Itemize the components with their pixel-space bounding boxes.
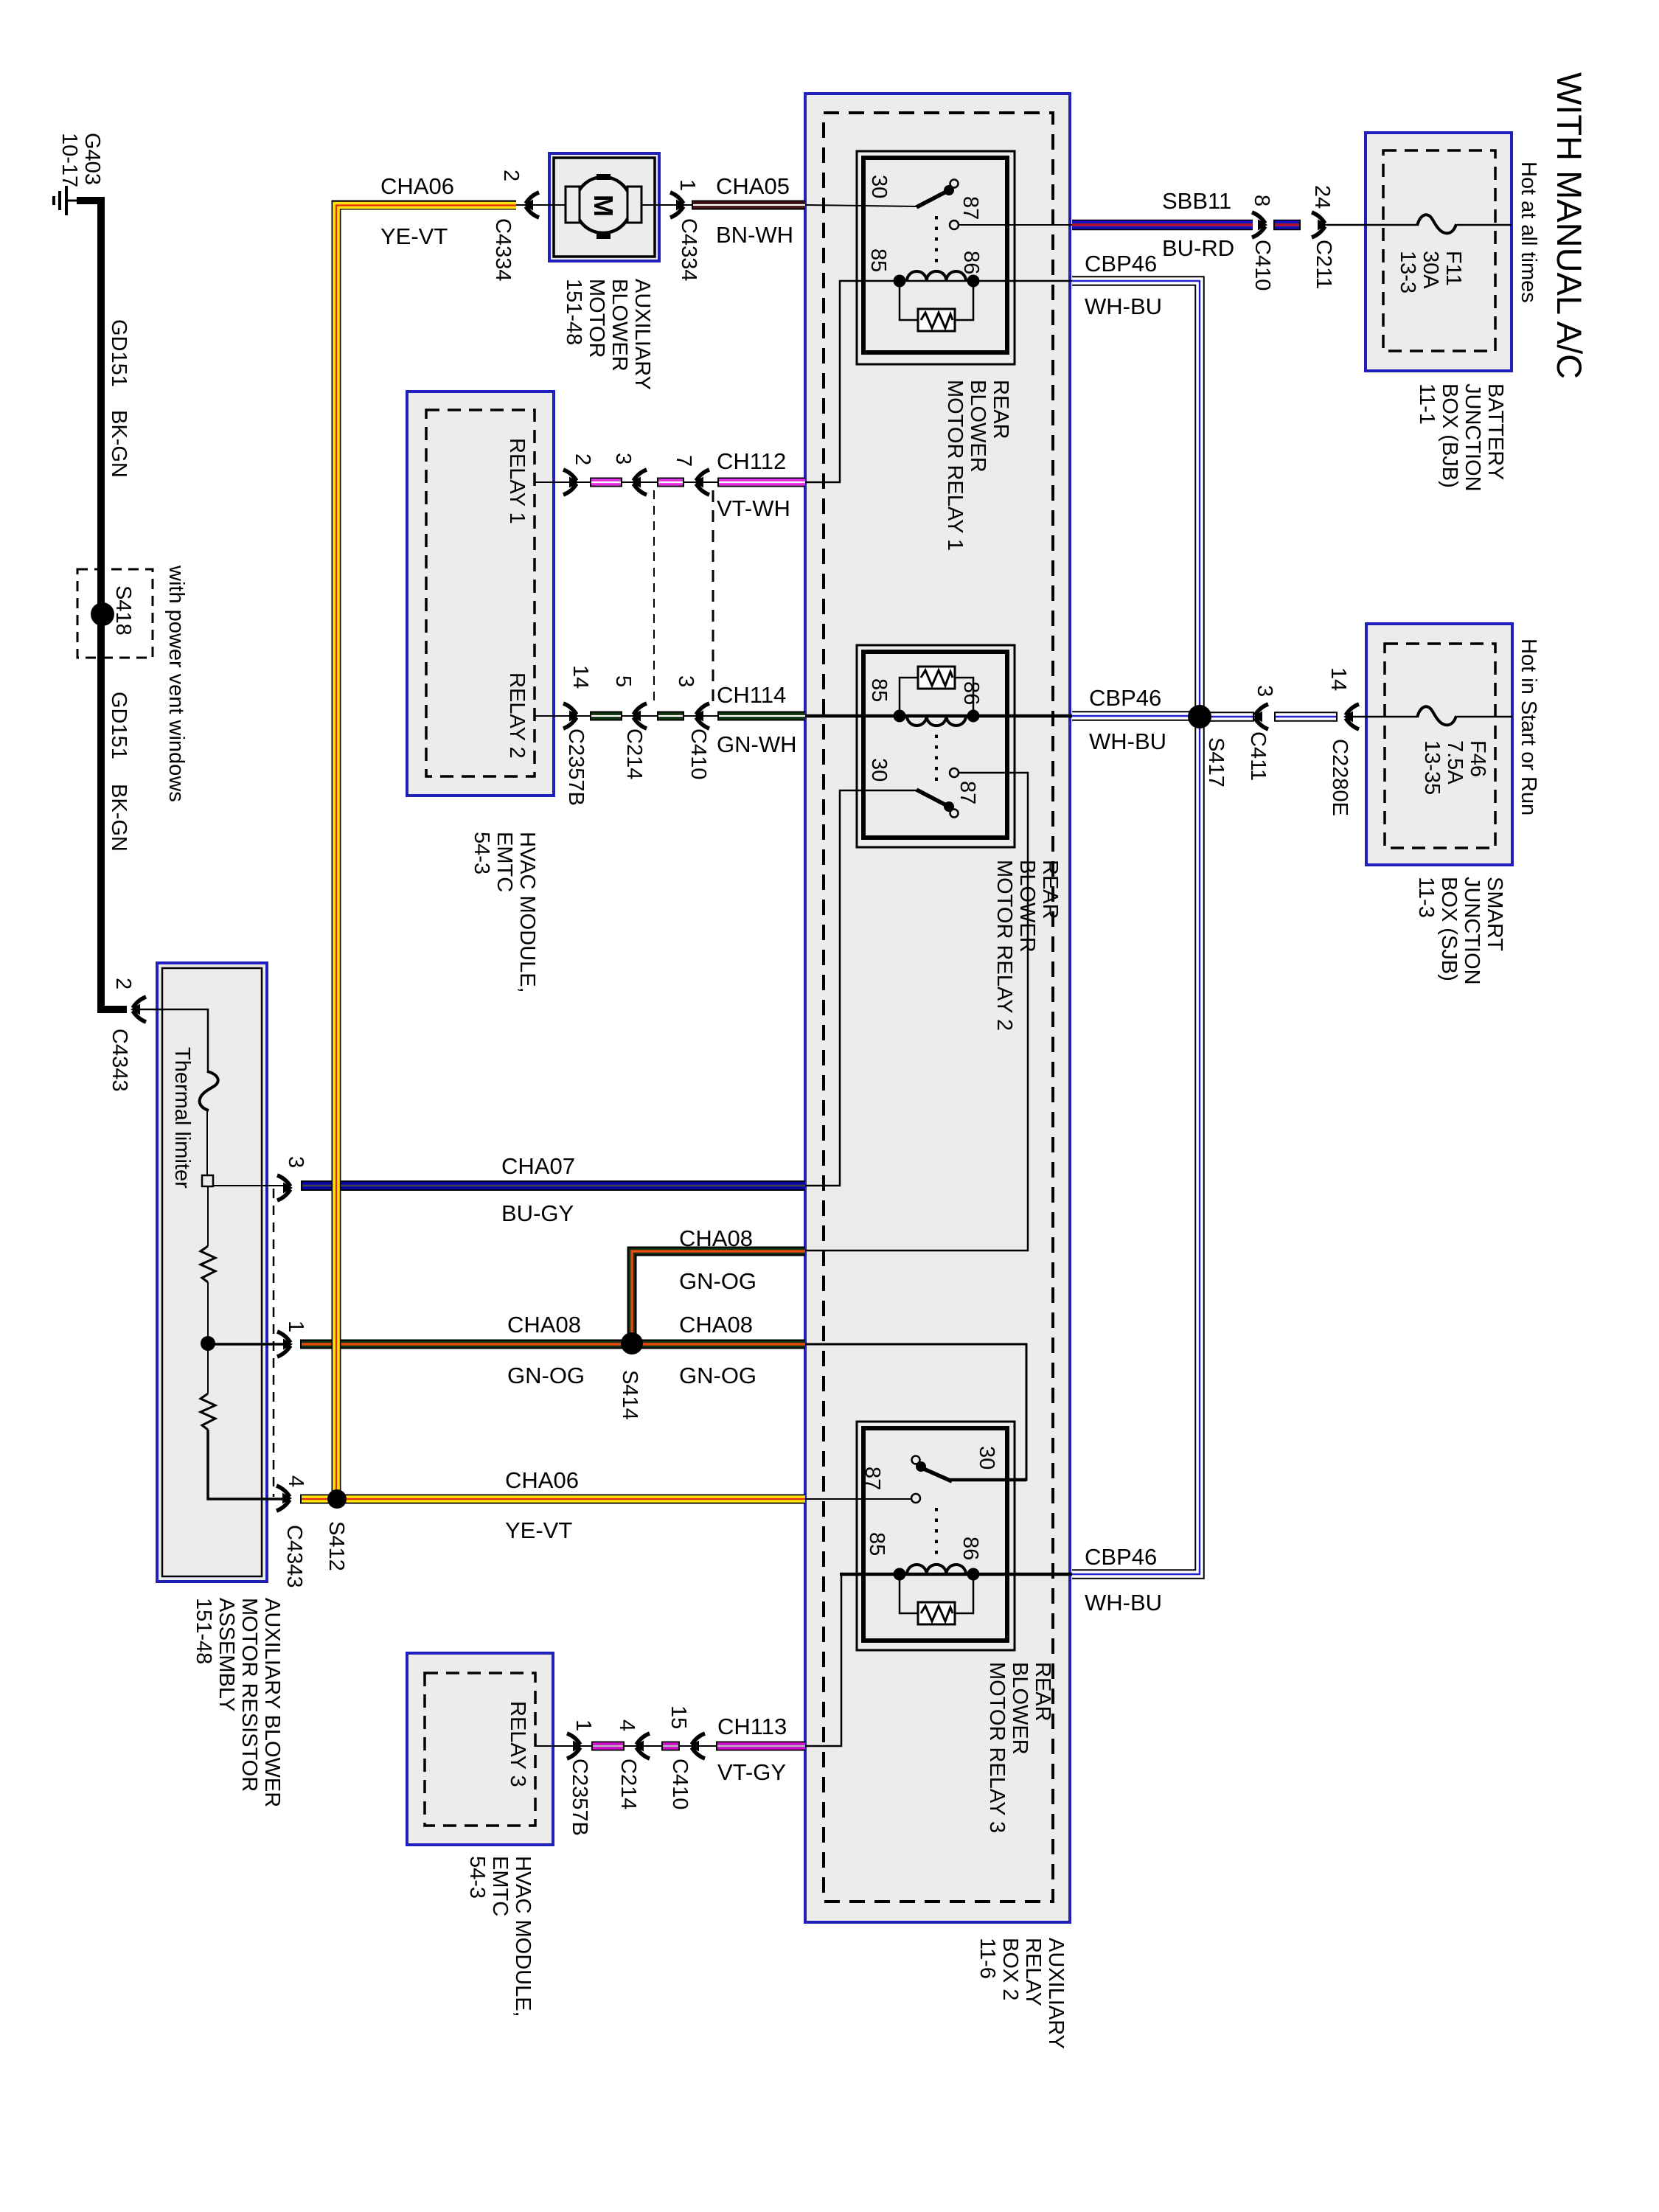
svg-text:CHA06: CHA06 [380, 173, 454, 199]
thermal limiter symbol [200, 1071, 218, 1110]
relay1 switch arm [917, 189, 950, 207]
svg-text:C410: C410 [1251, 240, 1274, 291]
svg-text:3: 3 [1253, 685, 1276, 697]
svg-text:CHA06: CHA06 [505, 1467, 579, 1493]
connector C214 pin5 arrow [631, 703, 647, 728]
relay1 coil [907, 271, 966, 281]
connector C2357B pin1 arrow [567, 1733, 582, 1759]
HVAC module box 1 (RELAY 1 / RELAY 2) [407, 392, 554, 796]
svg-text:30: 30 [867, 758, 891, 782]
relay1 87 contact [950, 220, 959, 229]
wire CHA05 inside box to relay1-30 [805, 205, 917, 206]
relay2 coil row thick wire (inside box) [805, 714, 1072, 718]
resistor 1 zigzag [201, 1246, 215, 1282]
wire into thermal limiter (thin) [140, 1009, 208, 1073]
connector C4343 pin 1 arrow [277, 1332, 293, 1357]
svg-text:CH114: CH114 [717, 682, 786, 708]
splice S412 dot [327, 1489, 347, 1509]
wire motor pin2 thin + connector C4334 pin2 arrow [516, 204, 568, 206]
svg-text:2: 2 [111, 978, 135, 990]
svg-text:VT-GY: VT-GY [717, 1759, 786, 1785]
connector bracket dashed C214 (between CH112/CH114 rows) [653, 490, 655, 706]
svg-text:CHA08: CHA08 [507, 1312, 581, 1338]
SJB inner dashed rect [1385, 644, 1495, 848]
svg-text:CHA08: CHA08 [679, 1312, 753, 1338]
relay: rear blower motor relay 2 [857, 645, 1015, 847]
wire into SJB + fuse F46 [1353, 716, 1417, 718]
wire CHA08 inside box: main row to relay3-30 riser [805, 1344, 1026, 1480]
connector bracket dashed C410 [712, 490, 714, 706]
wire motor pin1 thin + connector C4334 pin1 arrow [640, 204, 693, 206]
auxiliary relay box 2 inner dashed border [824, 113, 1053, 1902]
relay3 30 wire (thick) [950, 1478, 1026, 1482]
relay2 suppression resistor [900, 678, 973, 716]
wire CBP46 WH-BU: relay1-86 to corner to S417 to relay3 row (double line) [1072, 281, 1200, 1574]
ground symbol G403 [54, 186, 77, 215]
svg-text:14: 14 [1326, 667, 1350, 691]
svg-text:C4334: C4334 [677, 218, 700, 281]
HVAC module box 2 (RELAY 3) [407, 1653, 553, 1845]
svg-text:VT-WH: VT-WH [717, 495, 790, 521]
connector C4343 pin 2 arrow (ground side) [131, 997, 146, 1022]
relay: rear blower motor relay 1 [857, 151, 1072, 364]
svg-text:1: 1 [571, 1719, 595, 1731]
wire junction down to resistor 2 [207, 1344, 209, 1394]
svg-text:4: 4 [615, 1719, 639, 1731]
connector C4343 pin 4 arrow [276, 1486, 292, 1511]
battery junction box (BJB) [1366, 133, 1512, 371]
wire CH113 VT-GY seg1 [591, 1742, 625, 1751]
wire CHA07 inside box to relay2-30 riser [805, 790, 917, 1186]
svg-text:C410: C410 [668, 1759, 692, 1809]
auxiliary blower motor resistor assembly box (thermal limiter) [157, 963, 267, 1582]
svg-text:8: 8 [1250, 195, 1273, 206]
wire SBB11 BU-RD (relay1-87 to BJB) [959, 224, 1072, 226]
relay2 87 contact [950, 768, 959, 777]
svg-text:RELAY 1: RELAY 1 [505, 438, 529, 524]
svg-text:GD151: GD151 [107, 319, 131, 387]
connector C4343 pin 3 arrow [277, 1175, 293, 1200]
svg-text:87: 87 [860, 1467, 884, 1490]
BJB inner dashed rect [1383, 150, 1495, 351]
relay3 switch arm [920, 1467, 952, 1481]
svg-text:Hot in Start or Run: Hot in Start or Run [1517, 639, 1540, 815]
svg-text:CHA08: CHA08 [679, 1225, 753, 1251]
wire CH112 VT-WH long seg [717, 478, 805, 487]
svg-text:GN-WH: GN-WH [717, 731, 796, 757]
svg-text:C4334: C4334 [491, 218, 515, 281]
svg-text:C410: C410 [686, 728, 710, 779]
svg-text:BK-GN: BK-GN [107, 410, 131, 478]
svg-text:C2357B: C2357B [568, 1759, 591, 1836]
svg-text:2: 2 [571, 453, 594, 465]
relay3 coil row thick wire (inside box) [840, 1573, 1072, 1576]
relay3 suppression resistor [900, 1574, 973, 1613]
svg-text:5: 5 [611, 675, 635, 687]
wire pad down to resistor 1 [207, 1186, 209, 1246]
connector C214 pin3 arrow [631, 470, 647, 495]
svg-text:S412: S412 [324, 1521, 348, 1571]
wire CH114 GN-WH long seg [717, 712, 805, 721]
svg-text:86: 86 [959, 251, 983, 274]
wire CHA08 GN-OG main row (pin1 to S414 to box) [300, 1340, 805, 1349]
svg-text:CH112: CH112 [717, 448, 786, 474]
svg-text:RELAY 2: RELAY 2 [505, 672, 529, 759]
svg-text:WITH MANUAL A/C: WITH MANUAL A/C [1550, 72, 1589, 379]
relay3 dotted link [935, 1508, 938, 1557]
relay2 coil [907, 716, 966, 726]
splice S417 dot [1188, 705, 1211, 728]
svg-text:with power vent windows: with power vent windows [164, 565, 188, 802]
relay2 dotted link [935, 731, 938, 781]
relay3 coil [907, 1565, 966, 1574]
thermal limiter internal wire down [206, 1111, 208, 1176]
svg-text:30: 30 [867, 175, 891, 198]
junction dot on pin 1 row [201, 1336, 215, 1351]
svg-text:CBP46: CBP46 [1085, 1544, 1157, 1570]
wire CH113 inside box to relay3-85 riser [805, 1574, 841, 1746]
HVAC module box 2 dashed rect [425, 1673, 535, 1826]
svg-text:C214: C214 [622, 728, 646, 779]
wire CHA08 GN-OG upper branch (S414 up and right into box) [632, 1251, 805, 1343]
wire CBP46 WH-BU relay2 row to S417 [1072, 711, 1197, 721]
svg-text:15: 15 [667, 1705, 690, 1729]
svg-text:CH113: CH113 [717, 1714, 787, 1739]
svg-text:GN-OG: GN-OG [507, 1363, 585, 1388]
svg-text:WH-BU: WH-BU [1089, 728, 1166, 754]
svg-text:C4343: C4343 [282, 1525, 306, 1587]
svg-text:YE-VT: YE-VT [380, 223, 448, 249]
svg-text:C2357B: C2357B [564, 728, 588, 806]
svg-text:C211: C211 [1312, 240, 1335, 289]
wire CH112 VT-WH seg2 [657, 478, 684, 487]
svg-text:SBB11: SBB11 [1162, 188, 1231, 214]
svg-text:C4343: C4343 [108, 1029, 131, 1091]
relay2 switch arm [917, 790, 950, 807]
wire CHA06 YE-VT bottom row (pin4/S412 to box) [300, 1495, 805, 1504]
connector C410 arrow (SBB11, pin 8) [1252, 212, 1267, 237]
splice S418 dashed box [77, 569, 153, 658]
wire pad to pin3 arrow [213, 1185, 284, 1186]
connector C2357B pin14 arrow [563, 703, 579, 728]
connector C410 pin3 arrow [694, 703, 709, 728]
HVAC module box 1 dashed rect [426, 410, 535, 776]
svg-text:BU-RD: BU-RD [1162, 235, 1234, 261]
wire CH114 GN-WH seg2 [657, 712, 684, 721]
connector C211 arrow (pin 24) [1312, 212, 1327, 237]
svg-text:85: 85 [865, 1532, 888, 1556]
svg-text:87: 87 [959, 196, 982, 220]
terminal square pad at pin 3 branch [202, 1175, 213, 1186]
svg-text:Hot at all times: Hot at all times [1517, 161, 1540, 303]
relay1 dotted link [935, 216, 938, 265]
svg-text:85: 85 [866, 248, 890, 272]
svg-text:CBP46: CBP46 [1085, 251, 1157, 276]
wire into BJB + fuse F11 [1326, 224, 1417, 226]
connector C411 arrow (pin 3) [1253, 704, 1268, 729]
wire junction to pin1 arrow [208, 1343, 284, 1346]
wire CH112 VT-WH row: relay1 HVAC stub [535, 481, 590, 483]
svg-text:GN-OG: GN-OG [679, 1268, 757, 1294]
svg-text:WH-BU: WH-BU [1085, 1590, 1162, 1615]
svg-text:3: 3 [674, 675, 698, 687]
svg-text:S418: S418 [111, 585, 135, 636]
wire resistor1 to junction [207, 1282, 209, 1344]
wire CH113 VT-GY row: relay3 HVAC stub [535, 1745, 591, 1747]
svg-text:S417: S417 [1204, 737, 1228, 787]
wire CH113 VT-GY seg2 [661, 1742, 680, 1751]
svg-text:C411: C411 [1246, 731, 1270, 781]
svg-text:G40310-17: G40310-17 [58, 133, 104, 187]
svg-text:BU-GY: BU-GY [501, 1200, 574, 1226]
connector C2280E arrow (pin 14) [1343, 704, 1359, 729]
wire CH112 VT-WH seg1 [590, 478, 622, 487]
smart junction box (SJB) [1366, 624, 1512, 865]
svg-text:BK-GN: BK-GN [107, 784, 131, 852]
relay: rear blower motor relay 3 [857, 1422, 1026, 1650]
svg-text:3: 3 [611, 453, 635, 465]
svg-text:GD151: GD151 [107, 692, 131, 759]
svg-text:1: 1 [284, 1321, 307, 1332]
relay1 coil row wire [903, 280, 1072, 282]
connector C2357B pin2 arrow [563, 470, 579, 495]
wire CHA05 BN-WH (motor to relay1-30) [692, 201, 805, 210]
svg-text:RELAY 3: RELAY 3 [506, 1701, 529, 1787]
ground wire GD151 BK-GN (thick black from G403 down to C4343 pin 2) [77, 201, 127, 1009]
wire CH114 GN-WH row: relay2 HVAC stub [535, 715, 590, 717]
svg-text:C214: C214 [616, 1759, 640, 1809]
wire CH112 inside box to relay1-85 riser [805, 281, 903, 482]
svg-text:CHA07: CHA07 [501, 1153, 575, 1179]
svg-text:YE-VT: YE-VT [505, 1517, 572, 1543]
svg-text:S414: S414 [618, 1370, 641, 1420]
relay3 87 contact [911, 1494, 920, 1503]
svg-text:24: 24 [1310, 185, 1334, 209]
wire CHA07 BU-GY (thermal pin3 to aux relay box) [301, 1180, 805, 1191]
connector C4343 dashed bracket line [273, 1189, 275, 1497]
wire resistor2 to pin 4 [208, 1430, 284, 1499]
wire CH113 VT-GY long seg [716, 1742, 805, 1751]
splice S418 dot [91, 602, 114, 626]
svg-text:3: 3 [284, 1156, 307, 1168]
wire CH114 GN-WH seg1 [590, 712, 622, 721]
wire CHA08 inside box: upper branch to relay2-87 riser [805, 773, 1028, 1251]
wire CHA06 YE-VT vertical and top horizontal (motor pin2 down to S412) [336, 205, 516, 1499]
svg-text:C2280E: C2280E [1328, 739, 1352, 816]
svg-text:85: 85 [867, 678, 891, 702]
svg-text:BN-WH: BN-WH [716, 222, 793, 248]
splice S414 dot [621, 1332, 643, 1354]
connector C214 pin4 arrow [634, 1733, 650, 1759]
resistor 2 zigzag [201, 1394, 215, 1430]
svg-text:GN-OG: GN-OG [679, 1363, 757, 1388]
svg-text:Thermal limiter: Thermal limiter [170, 1047, 194, 1189]
wire SBB11 BU-RD short seg [1273, 220, 1301, 231]
svg-text:14: 14 [568, 665, 592, 689]
motor M circle [566, 174, 641, 239]
wire WH-BU seg C411 to C2280E [1274, 712, 1338, 722]
svg-text:7: 7 [672, 455, 695, 467]
svg-text:CHA05: CHA05 [716, 173, 790, 199]
svg-text:CBP46: CBP46 [1089, 685, 1161, 711]
svg-text:WH-BU: WH-BU [1085, 293, 1162, 319]
svg-text:4: 4 [284, 1475, 307, 1487]
relay1 suppression resistor [900, 281, 973, 320]
auxiliary blower motor box [549, 153, 659, 261]
svg-text:86: 86 [959, 1537, 982, 1560]
auxiliary relay box 2 (outer gray box, blue border) [805, 94, 1070, 1922]
svg-text:30: 30 [975, 1446, 998, 1470]
svg-text:M: M [588, 195, 619, 217]
svg-text:86: 86 [959, 681, 983, 705]
connector C410 pin7 arrow [694, 470, 709, 495]
wire CBP46 WH-BU S417 to C411 [1202, 712, 1254, 722]
svg-text:87: 87 [956, 781, 979, 804]
connector C410 pin15 arrow [689, 1733, 705, 1759]
svg-text:1: 1 [675, 179, 699, 191]
svg-text:2: 2 [499, 170, 523, 181]
wire CHA06 inside box to relay3-87 [805, 1498, 913, 1500]
